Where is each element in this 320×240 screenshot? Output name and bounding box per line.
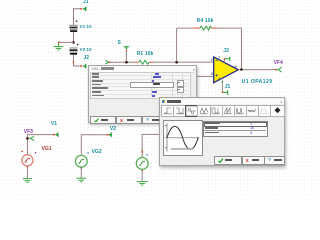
connector J1 bbox=[83, 7, 87, 12]
d2 parameter table bbox=[203, 121, 267, 136]
wire V2 bottom to J2 bbox=[74, 55, 82, 66]
generator VG2 bbox=[75, 152, 88, 169]
label J2 op-amp bbox=[223, 48, 229, 54]
wire VG2 to ground bbox=[80, 167, 82, 178]
wire R1 to op-amp input bbox=[154, 61, 214, 63]
label R1 10k bbox=[137, 51, 154, 57]
battery V1 bbox=[70, 20, 78, 32]
connector J2 bbox=[83, 64, 87, 69]
connector J2 (op-amp V+) bbox=[225, 57, 230, 61]
feedback wire top horizontal bbox=[177, 27, 194, 29]
wire endpoint red at J2 bbox=[80, 65, 82, 67]
wire endpoint red at ground bbox=[58, 42, 60, 44]
label VF4 bbox=[274, 60, 283, 66]
wire endpoint red at V1 jumper bbox=[53, 134, 55, 136]
resistor R4 10k bbox=[194, 26, 217, 30]
ground VG2 bbox=[77, 178, 87, 182]
ground VG3 bbox=[137, 182, 148, 186]
d1 row values bbox=[155, 73, 159, 75]
jumper S bbox=[124, 46, 130, 61]
d2 close X bbox=[280, 99, 282, 104]
d2 toolbar buttons bbox=[160, 97, 284, 99]
d1 column line bbox=[150, 72, 153, 98]
d1 row labels bbox=[92, 73, 99, 75]
label R4 10k bbox=[197, 18, 214, 24]
input net jumper arrow bbox=[105, 60, 108, 64]
op-amp U1 triangle bbox=[214, 57, 239, 83]
wire V1 bottom to junction bbox=[73, 32, 75, 43]
op-amp lower input wire bbox=[190, 75, 213, 77]
feedback wire right vertical bbox=[241, 28, 243, 69]
dialog signal editor bbox=[159, 97, 285, 166]
battery V2 bbox=[70, 44, 79, 55]
pin number 7 bbox=[218, 56, 220, 60]
generator VG1 (selected red) bbox=[21, 151, 36, 168]
wire endpoint red mid bbox=[73, 61, 74, 63]
wire junction to ground bbox=[59, 41, 74, 43]
d1 Cancel button bbox=[116, 116, 142, 124]
generator VG3 bbox=[136, 154, 148, 171]
label VG1 (selected red) bbox=[42, 146, 52, 152]
label J1 bbox=[83, 0, 89, 5]
wire VG3 toward dialog bbox=[142, 134, 160, 157]
d1 signal edit box bbox=[130, 82, 175, 88]
pin number 6 bbox=[235, 65, 237, 69]
pin number 4 bbox=[218, 77, 220, 81]
connector V2 bbox=[108, 133, 112, 138]
label J1 op-amp bbox=[225, 84, 231, 90]
preview axes bbox=[166, 123, 168, 152]
label V2 10 bbox=[80, 47, 92, 52]
junction node between V1 and V2 bbox=[72, 41, 75, 44]
d1 table bbox=[90, 72, 191, 100]
d2 title text bbox=[167, 100, 181, 103]
connector V1 bbox=[55, 132, 59, 137]
junction node feedback left bbox=[175, 61, 178, 64]
wire VG2 to V2 jumper bbox=[81, 135, 107, 156]
wire endpoint red at input jumper bbox=[109, 62, 111, 63]
d2 OK button bbox=[214, 156, 242, 164]
node VF3 junction bbox=[26, 137, 29, 140]
op-amp bottom power stub bbox=[221, 81, 223, 93]
d1 title bar bbox=[90, 66, 195, 73]
label V1 10 bbox=[80, 24, 92, 29]
d2 param values bbox=[250, 122, 252, 126]
pin number 2 bbox=[211, 58, 213, 62]
connector J1 (op-amp V-) bbox=[223, 90, 228, 95]
d1 browse buttons bbox=[177, 80, 184, 87]
d1 OK button bbox=[90, 116, 116, 124]
d1 row separators bbox=[90, 74, 189, 77]
label VF3 bbox=[24, 129, 33, 135]
wire endpoint red at VF4 bbox=[275, 69, 277, 71]
pin number 3 bbox=[211, 72, 213, 76]
wire endpoint red at V2 jumper bbox=[107, 134, 109, 136]
label V2 bbox=[110, 126, 116, 132]
wire VG3 to ground bbox=[141, 169, 143, 181]
d2 preview box bbox=[163, 120, 202, 156]
label V1 bbox=[51, 121, 57, 127]
d2 title bar bbox=[160, 99, 283, 105]
d2 Help button bbox=[264, 156, 285, 164]
ground (battery midpoint) bbox=[54, 43, 64, 50]
voltage pin VF4 bbox=[277, 67, 282, 72]
VF3 net wire to V1 jumper bbox=[27, 135, 53, 155]
preview caption bbox=[171, 148, 193, 150]
resistor R1 10k bbox=[135, 60, 154, 64]
wire endpoint red above VG3 bbox=[142, 150, 143, 153]
ground VG1 bbox=[23, 179, 33, 183]
wire from J1 to battery V1 top bbox=[74, 9, 82, 25]
voltage pin VF3 bbox=[29, 136, 34, 141]
wire endpoint red at J1 bbox=[80, 8, 82, 10]
label VG2 bbox=[92, 149, 102, 155]
junction node output bbox=[240, 68, 243, 71]
dialog VG1 properties bbox=[88, 65, 196, 124]
op-amp top power stub bbox=[223, 59, 225, 63]
d2 title icon bbox=[162, 100, 165, 103]
d1 Help button bbox=[142, 116, 166, 124]
wire input net to R1 bbox=[111, 61, 135, 63]
label J2 bbox=[84, 55, 90, 61]
wire VG1 to ground bbox=[26, 166, 28, 178]
feedback wire left vertical bbox=[176, 28, 178, 61]
d2 param labels bbox=[205, 123, 220, 124]
label U1 OPA129 bbox=[242, 79, 273, 85]
junction node S bbox=[125, 61, 128, 64]
op-amp input marks bbox=[216, 59, 218, 62]
d1 close X bbox=[193, 67, 195, 72]
output wire to VF4 bbox=[238, 69, 275, 71]
label S bbox=[118, 40, 121, 46]
d2 Cancel button bbox=[242, 156, 267, 164]
preview sine wave bbox=[167, 127, 198, 150]
